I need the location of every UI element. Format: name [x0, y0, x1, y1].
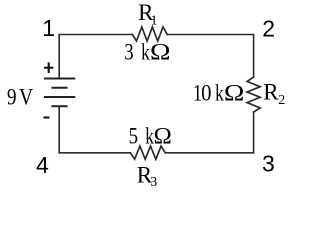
svg-text:Ω: Ω: [150, 40, 171, 65]
svg-text:R2: R2: [263, 80, 285, 109]
svg-text:R1: R1: [138, 0, 157, 28]
svg-text:R3: R3: [137, 163, 158, 187]
resistor R1: [132, 27, 167, 41]
svg-text:V: V: [19, 84, 34, 110]
battery plate short: [51, 87, 67, 89]
svg-text:k: k: [141, 40, 150, 65]
minus polarity mark: [44, 116, 50, 118]
svg-text:0: 0: [201, 81, 211, 106]
svg-text:4: 4: [36, 152, 49, 178]
plus polarity mark: [44, 62, 53, 73]
svg-text:5: 5: [129, 123, 138, 149]
wire node2: top-right segment: [167, 35, 253, 78]
resistor R3: [130, 146, 165, 159]
svg-text:2: 2: [262, 16, 275, 42]
resistor R2: [247, 77, 260, 112]
svg-text:Ω: Ω: [224, 81, 245, 106]
svg-text:3: 3: [124, 39, 133, 65]
battery B1 9V: [44, 79, 75, 107]
battery plate long: [44, 96, 75, 98]
svg-text:Ω: Ω: [154, 124, 172, 149]
battery plate long top: [44, 78, 75, 80]
wire node1: left and top-left segment: [59, 35, 132, 79]
svg-text:9: 9: [7, 84, 17, 110]
battery plate short bottom: [51, 105, 67, 107]
wire node3: right-bottom segment: [165, 112, 253, 153]
svg-text:1: 1: [42, 15, 55, 41]
svg-text:3: 3: [262, 151, 275, 177]
wire node4: bottom-left segment: [59, 107, 130, 153]
